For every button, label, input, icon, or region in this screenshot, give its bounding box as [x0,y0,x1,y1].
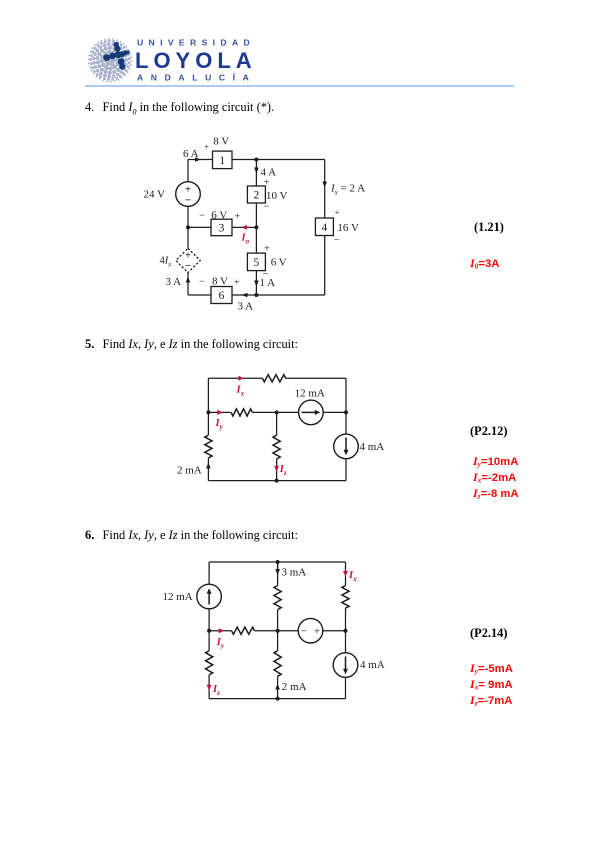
node middle junction [276,629,280,633]
wire middle horizontal row [209,630,231,632]
svg-text:+: + [335,207,340,217]
svg-text:12 mA: 12 mA [163,591,193,603]
node top middle junction [276,560,280,564]
svg-text:6: 6 [219,290,225,302]
svg-text:Ix = 2 A: Ix = 2 A [330,183,365,197]
svg-text:5: 5 [254,257,260,269]
svg-text:10 V: 10 V [266,190,288,202]
equation ref (P2.12) [470,424,508,439]
svg-text:3 mA: 3 mA [282,567,307,579]
svg-text:6 V: 6 V [271,256,287,268]
wire top: from top-left corner to top-right corner [188,159,325,161]
svg-text:−: − [199,277,205,288]
svg-text:8 V: 8 V [213,136,229,148]
svg-text:4Ix: 4Ix [160,256,173,269]
voltage source 24 V [176,182,201,207]
current source 12 mA (arrow up) [197,584,222,609]
svg-text:4: 4 [322,222,328,234]
resistor R-mid lower [274,651,281,677]
element box 1 [213,151,233,169]
svg-text:12 mA: 12 mA [295,387,325,399]
current arrow Iy (red) on middle row [220,630,222,632]
svg-text:−: − [185,261,191,272]
current source 4 mA (arrow down) [333,653,358,678]
resistor R-mid-row horizontal [232,627,255,634]
svg-text:UNIVERSIDAD: UNIVERSIDAD [137,37,255,47]
node bottom-middle junction [254,293,258,297]
current source 4 mA (arrow down) [334,434,359,459]
svg-text:2 mA: 2 mA [282,681,307,693]
node left middle junction [207,629,211,633]
current arrow 1 A downward [254,281,259,287]
wire middle branch vertical [255,160,257,296]
svg-text:Iz: Iz [212,684,220,697]
answer I0=3A [470,257,499,273]
wire right branch vertical [324,160,326,296]
resistor R-top [262,375,285,382]
wire top [209,561,345,563]
logo globe [88,38,132,82]
svg-text:2 mA: 2 mA [177,465,202,477]
svg-text:24 V: 24 V [144,189,166,201]
node right middle junction [344,629,348,633]
current arrow Ix (red) on top wire [240,377,242,379]
node left junction second row [206,410,210,414]
current arrow Iy (red) on second wire [218,411,220,413]
problem 4 heading [85,100,274,116]
wire right vertical [345,562,347,586]
svg-text:Io: Io [241,233,250,246]
current arrow Io (red) pointing left toward element 3 [243,226,245,228]
svg-text:+: + [234,278,240,289]
current arrow 2 mA upward at bottom of middle branch [275,684,280,690]
svg-text:6 A: 6 A [183,148,199,160]
node left junction at element 3 wire [186,225,190,229]
header underline [85,85,514,87]
equation ref (P2.14) [470,626,508,641]
svg-text:Iz: Iz [279,464,287,477]
element box 5 [247,253,265,271]
resistor R-mid vertical [273,435,280,459]
wire right vertical [345,378,347,434]
svg-text:1 A: 1 A [260,277,276,289]
svg-text:+: + [204,142,209,152]
current arrow Ix = 2 A downward on right branch [322,182,327,188]
svg-text:+: + [234,211,240,222]
current arrow Iz (red) downward on middle branch [276,467,278,469]
wire bottom [209,698,345,700]
current arrow Iz (red) downward at bottom of left branch [208,686,210,688]
current arrow Ix (red) downward at top of right branch [345,572,347,574]
logo cross of navy dots [103,42,129,70]
node bottom middle junction [276,697,280,701]
svg-text:2: 2 [254,190,260,202]
svg-text:4 mA: 4 mA [360,441,385,453]
problem 6 heading [85,528,298,543]
svg-text:3 A: 3 A [238,301,254,313]
wire bottom [208,480,346,482]
equation ref (1.21) [474,220,504,235]
voltage source - + in middle row [298,618,323,643]
resistor R-left vertical [205,435,212,458]
svg-text:16 V: 16 V [337,222,359,234]
wire left branch vertical [187,160,189,296]
node right junction second row [344,410,348,414]
svg-text:−: − [185,194,191,206]
svg-text:Iy: Iy [216,637,225,650]
resistor R-left lower [206,651,213,675]
svg-text:LOYOLA: LOYOLA [135,48,257,73]
element box 2 [247,186,265,203]
wire element-3 branch horizontal [188,226,256,228]
resistor R-right upper [342,586,349,609]
svg-text:−: − [264,202,270,213]
svg-text:−: − [334,235,340,246]
element box 4 [315,218,333,236]
node middle junction second row [275,410,279,414]
svg-text:8 V: 8 V [212,276,228,288]
wire top with resistor [208,377,262,379]
university logo [85,30,265,86]
current arrow 3 A upward on left branch [186,277,191,283]
problem 5 heading [85,337,298,352]
dependent source 4Ix (diamond) [176,248,200,272]
svg-text:Ix: Ix [236,384,245,397]
current arrow 3 mA downward at top of middle branch [275,569,280,575]
svg-text:Iy: Iy [215,418,224,431]
svg-text:1: 1 [219,155,225,167]
wire middle vertical [276,412,278,435]
element box 3 [211,219,232,236]
wire bottom: bottom-left to bottom-right [188,294,325,296]
svg-text:+: + [314,626,320,637]
current arrow 6 A on top wire [195,157,201,162]
wire middle vertical [277,562,279,586]
resistor R-mid upper [274,586,281,610]
current arrow 2 mA upward on left branch [206,463,211,469]
element box 6 [211,287,232,304]
node top-middle junction [254,158,258,162]
svg-text:3: 3 [219,223,225,235]
svg-text:4 mA: 4 mA [360,659,385,671]
node bottom middle junction [275,479,279,483]
wire second row left part [208,411,231,413]
svg-text:3 A: 3 A [166,276,182,288]
resistor R-mid horizontal [231,409,252,416]
current arrow 4 A on middle branch [254,168,259,174]
svg-text:−: − [301,625,307,637]
wire left vertical [208,562,210,651]
node middle junction at element 3 wire [254,225,258,229]
current source 12 mA (arrow right) [299,400,324,425]
wire left vertical [207,378,209,435]
svg-text:Ix: Ix [348,570,357,583]
svg-text:ANDALUCÍA: ANDALUCÍA [137,72,256,82]
svg-text:−: − [199,210,205,221]
current arrow 3 A pointing left on bottom wire [242,293,248,298]
